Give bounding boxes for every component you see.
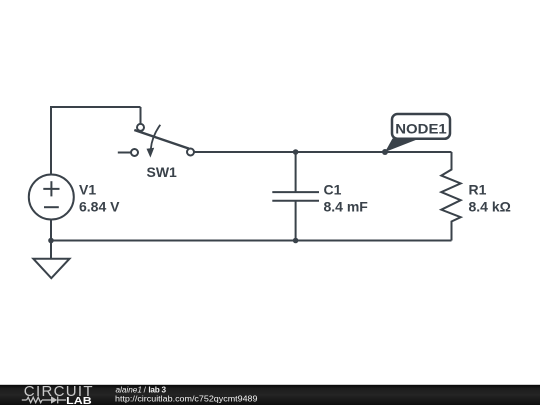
svg-text:V1: V1: [79, 182, 96, 198]
svg-text:8.4 kΩ: 8.4 kΩ: [469, 199, 511, 215]
svg-text:C1: C1: [324, 182, 342, 198]
svg-text:NODE1: NODE1: [395, 120, 447, 136]
svg-text:8.4 mF: 8.4 mF: [324, 199, 369, 215]
svg-text:6.84 V: 6.84 V: [79, 199, 120, 215]
svg-text:LAB: LAB: [66, 395, 92, 405]
svg-text:R1: R1: [469, 182, 487, 198]
svg-text:SW1: SW1: [147, 164, 178, 180]
svg-text:http://circuitlab.com/c752qycm: http://circuitlab.com/c752qycmt9489: [115, 393, 258, 403]
